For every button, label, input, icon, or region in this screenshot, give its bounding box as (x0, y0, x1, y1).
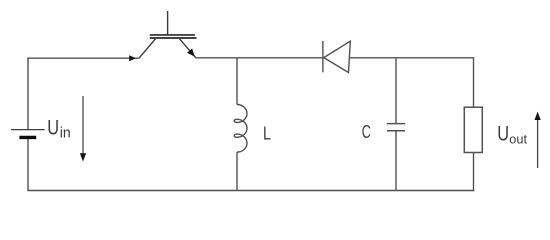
svg-text:U: U (497, 122, 509, 145)
gate bar bottom (150, 37, 197, 39)
load resistor R (464, 107, 482, 152)
battery long plate (11, 129, 45, 131)
emitter arrowhead (187, 48, 195, 56)
U_out arrow (up) (537, 119, 539, 168)
wire inductor bottom lead (236, 152, 238, 191)
wire left vertical lower (27, 138, 29, 191)
wire top-right horizontal (350, 57, 475, 59)
U_in arrow (down) (82, 96, 84, 154)
wire top-left horizontal (27, 57, 139, 59)
wire inductor top lead (236, 58, 238, 105)
svg-text:L: L (263, 123, 271, 144)
inductor L coil (234, 105, 247, 153)
gate lead (167, 11, 169, 35)
svg-text:U: U (47, 116, 59, 139)
diode D1 triangle (324, 41, 351, 72)
wire right vertical lower (473, 153, 475, 192)
diode D1 cathode bar (322, 41, 324, 72)
capacitor plate top (387, 123, 405, 125)
capacitor C plates (387, 124, 405, 131)
gate bar top (150, 34, 195, 36)
capacitor plate bottom (387, 130, 405, 132)
svg-text:out: out (509, 132, 527, 147)
emitter diagonal (right) (180, 39, 196, 58)
battery U_in source (11, 130, 45, 138)
collector current arrowhead on wire (129, 55, 136, 61)
wire left vertical upper (27, 58, 29, 130)
wire capacitor bottom lead (395, 131, 397, 191)
svg-text:in: in (60, 125, 71, 141)
collector diagonal (left) (139, 39, 156, 58)
battery short thick plate (19, 136, 36, 139)
wire top-middle horizontal (196, 57, 323, 59)
svg-text:C: C (362, 123, 371, 143)
wire right vertical upper (473, 58, 475, 107)
wire capacitor top lead (395, 58, 397, 124)
wire bottom horizontal (27, 190, 474, 192)
transistor Q1 (IGBT) (139, 11, 197, 58)
